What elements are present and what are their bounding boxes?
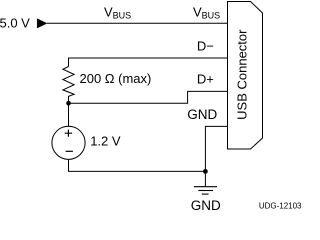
svg-text:D−: D− xyxy=(197,39,214,54)
voltage source V1 circle xyxy=(52,126,85,159)
wire D+ (junction to USB connector, with step) xyxy=(69,91,228,103)
resistor R1 zigzag xyxy=(63,67,74,104)
junction node B (ground rail) xyxy=(203,169,208,174)
wire (voltage source bottom to ground rail) xyxy=(69,159,206,171)
svg-text:D+: D+ xyxy=(197,71,214,86)
wire VBUS (arrow tip to USB connector) xyxy=(47,22,228,24)
svg-text:USB Connector: USB Connector xyxy=(235,29,250,120)
svg-text:VBUS: VBUS xyxy=(193,4,220,20)
wire GND (connector pin down to ground) xyxy=(205,126,227,186)
svg-text:GND: GND xyxy=(191,198,221,213)
svg-text:GND: GND xyxy=(187,107,217,122)
USB connector body xyxy=(228,2,263,150)
junction node A (resistor bottom) xyxy=(66,101,71,106)
svg-text:VBUS: VBUS xyxy=(104,4,131,20)
voltage source plus sign xyxy=(65,130,72,137)
wire (junction to voltage source top) xyxy=(68,103,70,126)
input arrow (5.0 V source) xyxy=(37,19,47,28)
svg-text:200 Ω (max): 200 Ω (max) xyxy=(80,71,152,86)
svg-text:1.2 V: 1.2 V xyxy=(90,134,121,149)
svg-text:UDG-12103: UDG-12103 xyxy=(259,202,302,211)
voltage source minus sign xyxy=(66,150,73,152)
ground symbol xyxy=(194,187,217,194)
wire D- (resistor top to USB connector) xyxy=(69,58,228,67)
svg-text:5.0 V: 5.0 V xyxy=(0,16,30,31)
